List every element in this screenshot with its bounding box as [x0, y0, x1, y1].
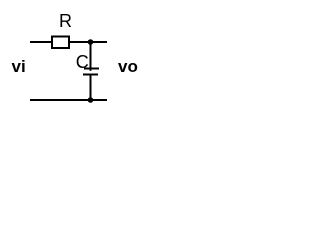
capacitor C bottom plate — [83, 74, 98, 76]
svg-text:R: R — [59, 11, 72, 31]
svg-text:vo: vo — [118, 57, 138, 76]
bottom junction dot — [88, 97, 94, 103]
resistor R — [52, 37, 69, 49]
wire node A down to capacitor — [90, 42, 92, 71]
node A junction dot — [88, 39, 94, 45]
svg-text:C: C — [76, 52, 89, 72]
capacitor C top plate — [84, 68, 99, 70]
svg-text:vi: vi — [12, 57, 26, 76]
wire top-left (vi to R) — [30, 41, 51, 43]
wire capacitor down to bottom rail — [90, 75, 92, 101]
wire R to node A — [70, 41, 107, 43]
wire bottom rail — [30, 99, 107, 101]
